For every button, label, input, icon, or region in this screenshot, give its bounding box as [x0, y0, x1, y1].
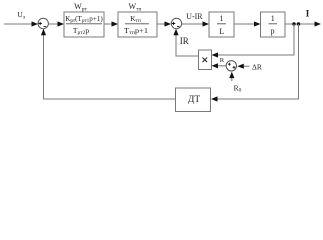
node ΔR	[252, 63, 262, 72]
wire sum1 to W_рт	[48, 21, 64, 26]
wire R0 input	[229, 72, 234, 81]
junction dot A on I line	[292, 22, 295, 25]
svg-text:L: L	[219, 27, 224, 36]
block ДТ (current sensor)	[176, 88, 211, 112]
node I (output current label)	[306, 8, 310, 18]
node IR	[180, 36, 189, 46]
node R0	[234, 83, 242, 93]
wire W_рт to W_тп	[104, 21, 118, 26]
wire input Uз to summing junction 1	[4, 21, 38, 26]
svg-text:IR: IR	[180, 36, 189, 46]
summing junction 3 (R0 + ΔR)	[226, 61, 236, 71]
block W_тп (thyristor converter)	[118, 2, 157, 37]
summing junction 2	[171, 18, 181, 28]
wire 1/L to 1/p	[234, 21, 261, 26]
wire I feedback to multiplier top input	[212, 24, 295, 58]
svg-text:I: I	[306, 8, 310, 18]
summing junction 1	[38, 18, 48, 28]
node Uз (setpoint input label)	[17, 10, 25, 20]
block W_рт (current regulator, PI)	[64, 2, 104, 37]
block 1/p (integrator)	[261, 12, 286, 37]
svg-text:U-IR: U-IR	[186, 12, 203, 21]
block 1/L (armature inductance)	[209, 12, 234, 37]
wire W_тп to summing junction 2	[157, 21, 171, 26]
wire ДТ output feedback to sum1	[41, 29, 176, 99]
wire multiplier output IR to sum2	[173, 29, 198, 56]
svg-text:R: R	[220, 57, 225, 64]
node U-IR	[186, 12, 203, 21]
svg-text:ДТ: ДТ	[188, 95, 200, 105]
junction dot B on I line	[297, 22, 300, 25]
node R	[220, 57, 225, 64]
svg-text:1: 1	[220, 14, 224, 23]
svg-text:ΔR: ΔR	[252, 63, 262, 72]
block × multiplier	[199, 50, 212, 70]
wire sum2 to block 1/L	[182, 21, 209, 26]
svg-text:1: 1	[271, 14, 275, 23]
svg-text:Tтпp+1: Tтпp+1	[124, 26, 148, 36]
wire sum3 to multiplier lower input (R)	[212, 63, 227, 68]
svg-text:p: p	[271, 26, 275, 35]
wire output I	[285, 21, 321, 26]
wire I feedback to ДТ input	[211, 24, 299, 102]
wire ΔR input	[237, 64, 249, 69]
